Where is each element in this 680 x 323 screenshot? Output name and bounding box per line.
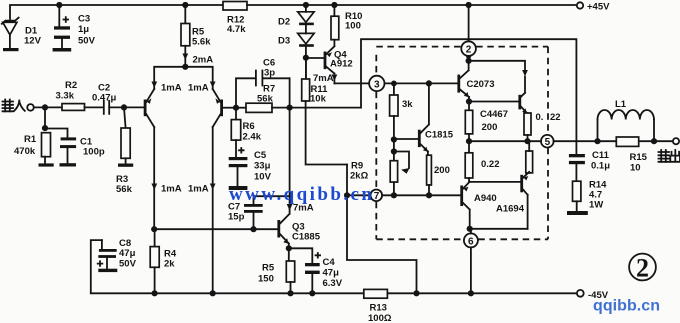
svg-text:1W: 1W bbox=[589, 200, 603, 211]
resistor R11 bbox=[302, 58, 347, 165]
capacitor C2 bbox=[92, 83, 116, 114]
node driver emitter junction bbox=[466, 98, 472, 104]
svg-text:R5: R5 bbox=[262, 263, 275, 274]
svg-text:10V: 10V bbox=[254, 172, 272, 183]
resistor 200 C4467 bbox=[465, 102, 497, 142]
arrow into module bbox=[466, 56, 472, 62]
resistor R5 bbox=[181, 2, 211, 67]
node top rail node2 bbox=[466, 2, 472, 8]
svg-text:3p: 3p bbox=[264, 68, 275, 79]
wire A1694 base bbox=[470, 181, 521, 183]
wire R2 to C2 bbox=[85, 106, 104, 108]
terminal input bbox=[27, 104, 34, 111]
svg-text:100: 100 bbox=[345, 21, 361, 32]
label shuchu output glyphs bbox=[659, 150, 680, 162]
svg-text:10k: 10k bbox=[310, 94, 327, 105]
ground R1 bbox=[39, 163, 54, 166]
wire Q2 collector bbox=[212, 127, 214, 293]
transistor A940 bbox=[460, 182, 496, 229]
arrow 1mA right lower bbox=[188, 184, 216, 195]
node circle 6 bbox=[464, 233, 478, 247]
arrow 7mA Q4 bbox=[313, 73, 337, 84]
svg-text:2kΩ: 2kΩ bbox=[350, 171, 369, 182]
resistor 0.22 right lower bbox=[526, 141, 533, 173]
resistor R4 bbox=[150, 229, 177, 293]
svg-text:4.7k: 4.7k bbox=[227, 24, 246, 35]
transistor Q2 bbox=[213, 89, 236, 127]
svg-text:5.6k: 5.6k bbox=[192, 37, 211, 48]
node Q3 emitter bbox=[286, 245, 292, 251]
ground R14 bbox=[567, 211, 588, 215]
transistor A1694 bbox=[496, 172, 529, 229]
wire bottom rail right bbox=[387, 292, 576, 294]
transistor C2073 bbox=[457, 61, 494, 102]
svg-text:10: 10 bbox=[630, 163, 641, 174]
svg-text:A912: A912 bbox=[330, 59, 353, 70]
svg-text:C1885: C1885 bbox=[292, 232, 321, 243]
svg-text:0.47μ: 0.47μ bbox=[92, 93, 116, 104]
svg-text:56k: 56k bbox=[257, 94, 274, 105]
resistor R6 bbox=[231, 108, 261, 157]
resistor R7 bbox=[236, 84, 275, 113]
node 200 bottom rail5 bbox=[466, 138, 472, 144]
node 3k top bbox=[391, 81, 397, 87]
wire Q4 collector to node3 bbox=[334, 82, 369, 84]
node C1815 collector top bbox=[426, 80, 432, 86]
zener diode D1 bbox=[2, 18, 42, 52]
wire node3 line bbox=[385, 82, 458, 84]
svg-text:150: 150 bbox=[258, 274, 274, 285]
inductor L1 bbox=[598, 99, 655, 141]
svg-text:22: 22 bbox=[550, 112, 561, 123]
node stepped wire junction7 bbox=[344, 192, 350, 198]
resistor 200 emitter bbox=[427, 155, 450, 195]
wire top rail 12V net bbox=[10, 5, 223, 19]
resistor R1 bbox=[14, 133, 51, 164]
capacitor C3 bbox=[53, 2, 96, 52]
node C7 base junction bbox=[250, 226, 256, 232]
svg-text:0.: 0. bbox=[536, 112, 544, 123]
wire feedback riser to zobel top bbox=[361, 39, 576, 154]
node Q1 base junction bbox=[121, 104, 127, 110]
svg-text:2.4k: 2.4k bbox=[243, 132, 262, 143]
node R9 wiper tie bbox=[391, 148, 397, 154]
svg-text:R2: R2 bbox=[65, 80, 77, 91]
node input junction bbox=[42, 104, 48, 110]
svg-text:L1: L1 bbox=[615, 99, 627, 110]
svg-text:C5: C5 bbox=[254, 150, 267, 161]
node Q4 base junction bbox=[303, 55, 309, 61]
svg-text:470k: 470k bbox=[14, 146, 36, 157]
svg-text:1mA: 1mA bbox=[161, 83, 182, 94]
wire node7 line bbox=[382, 194, 460, 196]
svg-text:200: 200 bbox=[434, 165, 450, 176]
node rail R5a bbox=[287, 290, 293, 296]
svg-text:100p: 100p bbox=[83, 147, 105, 158]
node circle 5 bbox=[541, 135, 554, 148]
svg-text:50V: 50V bbox=[119, 259, 137, 270]
svg-text:C4: C4 bbox=[323, 257, 336, 268]
node C2073 collector bbox=[466, 58, 472, 64]
wire C4467 base bbox=[469, 101, 518, 103]
svg-text:100Ω: 100Ω bbox=[368, 313, 392, 323]
transistor Q4 bbox=[306, 46, 353, 83]
svg-text:R6: R6 bbox=[243, 121, 255, 132]
capacitor C6 bbox=[256, 58, 275, 86]
svg-text:2: 2 bbox=[466, 45, 472, 56]
wire tail split bbox=[154, 67, 213, 89]
svg-text:R1: R1 bbox=[24, 134, 37, 145]
svg-text:3k: 3k bbox=[402, 99, 413, 110]
capacitor C8 bbox=[91, 238, 137, 293]
wire R11 path to node7 and rail bbox=[347, 165, 417, 294]
svg-text:1mA: 1mA bbox=[188, 184, 209, 195]
arrow 1mA right upper bbox=[188, 82, 216, 94]
node A940 collector bbox=[467, 226, 473, 232]
resistor 3k bbox=[390, 83, 414, 160]
svg-text:7: 7 bbox=[374, 191, 380, 202]
node circle 7 bbox=[371, 190, 383, 203]
capacitor C4 bbox=[289, 248, 343, 293]
label shuru input glyphs bbox=[3, 100, 25, 112]
wire bottom rail left bbox=[91, 292, 364, 294]
svg-text:6: 6 bbox=[468, 236, 474, 247]
svg-text:A940: A940 bbox=[474, 193, 497, 204]
arrow 1mA left upper bbox=[151, 82, 181, 94]
svg-text:C3: C3 bbox=[78, 14, 90, 25]
ground C1 bbox=[60, 163, 77, 166]
diode D3 bbox=[278, 25, 314, 79]
svg-text:+45V: +45V bbox=[587, 2, 610, 13]
arrow 1mA left lower bbox=[151, 184, 181, 195]
node R7 C6 junction bbox=[287, 105, 293, 111]
node circle 3 bbox=[369, 76, 384, 91]
svg-text:2k: 2k bbox=[164, 259, 175, 270]
capacitor C7 bbox=[228, 196, 290, 229]
ground C5 bbox=[229, 186, 248, 190]
node rail node6 bbox=[468, 290, 474, 296]
svg-text:C2073: C2073 bbox=[467, 79, 495, 90]
node tail split bbox=[182, 64, 188, 70]
node L1 right bbox=[651, 138, 657, 144]
node 022 bottom rail5 bbox=[524, 138, 530, 144]
terminal output bbox=[673, 138, 679, 144]
resistor R2 bbox=[56, 80, 85, 110]
wire node6 stub bbox=[470, 229, 472, 293]
svg-text:47μ: 47μ bbox=[323, 268, 340, 279]
svg-text:5: 5 bbox=[545, 137, 551, 148]
node R9 bottom bbox=[391, 192, 397, 198]
node circle 2 bbox=[461, 41, 476, 56]
svg-text:C1815: C1815 bbox=[425, 130, 454, 141]
wire R1 branch bbox=[44, 107, 46, 128]
node R1 C1 junction bbox=[42, 125, 48, 131]
svg-text:D2: D2 bbox=[278, 17, 290, 28]
resistor R15 bbox=[616, 137, 647, 174]
wire Q3 collector column bbox=[289, 78, 291, 214]
wire C6 branch bbox=[236, 78, 255, 107]
svg-text:www.qqibb.cn: www.qqibb.cn bbox=[229, 184, 372, 205]
svg-text:0.1μ: 0.1μ bbox=[591, 161, 610, 172]
svg-text:47μ: 47μ bbox=[119, 248, 136, 259]
resistor 0.22 left lower bbox=[465, 141, 499, 182]
wire input to R2 bbox=[34, 106, 62, 108]
terminal +45V bbox=[577, 2, 610, 13]
transistor Q1 bbox=[144, 89, 155, 127]
node L1 left bbox=[594, 138, 600, 144]
figure number 2 bbox=[629, 254, 656, 283]
svg-text:2mA: 2mA bbox=[193, 55, 214, 66]
svg-text:33μ: 33μ bbox=[254, 161, 271, 172]
diode D2 bbox=[278, 2, 314, 28]
node rail Q2 bbox=[210, 290, 216, 296]
svg-text:2: 2 bbox=[636, 254, 649, 283]
svg-text:R15: R15 bbox=[630, 152, 648, 163]
svg-text:50V: 50V bbox=[78, 36, 96, 47]
wire node5 line bbox=[469, 140, 673, 142]
wire top rail +45V net bbox=[247, 4, 577, 6]
node rail tap bbox=[413, 290, 419, 296]
wire C2 to Q1 base bbox=[109, 106, 144, 108]
svg-text:1mA: 1mA bbox=[161, 184, 182, 195]
wire R3 branch bbox=[124, 107, 126, 128]
node rail R4 bbox=[152, 290, 158, 296]
node Q1 collector to base line bbox=[151, 226, 157, 232]
transistor Q3 bbox=[277, 215, 320, 249]
svg-text:1μ: 1μ bbox=[78, 24, 89, 35]
transistor C1815 bbox=[394, 83, 454, 155]
svg-text:A1694: A1694 bbox=[496, 204, 525, 215]
svg-text:7mA: 7mA bbox=[313, 73, 334, 84]
resistor R3 bbox=[116, 128, 133, 195]
arrow 2mA bbox=[182, 54, 213, 66]
svg-text:200: 200 bbox=[482, 122, 498, 133]
transistor C4467 bbox=[480, 95, 527, 120]
svg-text:6.3V: 6.3V bbox=[323, 278, 343, 289]
arrow collector feed bbox=[522, 70, 528, 76]
resistor R14 bbox=[573, 180, 608, 212]
svg-text:D3: D3 bbox=[278, 36, 290, 47]
arrow 7mA Q3 bbox=[287, 203, 314, 214]
wire Q3 base line bbox=[154, 228, 277, 230]
svg-text:15p: 15p bbox=[228, 212, 245, 223]
wire R7 to feedback riser bbox=[272, 107, 361, 109]
node C1815 base junction bbox=[391, 136, 397, 142]
dashed module box bbox=[376, 47, 548, 240]
svg-text:0.22: 0.22 bbox=[481, 159, 500, 170]
svg-text:R13: R13 bbox=[370, 303, 387, 314]
svg-text:3: 3 bbox=[374, 79, 380, 90]
node R6 junction bbox=[233, 105, 239, 111]
svg-text:1mA: 1mA bbox=[188, 83, 209, 94]
svg-text:C4467: C4467 bbox=[480, 109, 508, 120]
wire C6 to feedback node bbox=[262, 77, 289, 79]
resistor R10 bbox=[331, 2, 362, 46]
svg-text:12V: 12V bbox=[24, 36, 42, 47]
svg-text:56k: 56k bbox=[116, 184, 133, 195]
resistor R5a 150 bbox=[258, 248, 295, 293]
capacitor C5 bbox=[229, 148, 272, 186]
resistor 0.22 upper bbox=[524, 112, 561, 141]
capacitor C1 bbox=[60, 137, 105, 164]
wire Q1 collector bbox=[153, 127, 155, 229]
resistor R13 bbox=[364, 289, 392, 323]
svg-text:3.3k: 3.3k bbox=[56, 91, 75, 102]
wire C1 branch bbox=[45, 129, 68, 138]
wire node6 line bbox=[470, 228, 528, 230]
svg-text:qqibb.cn: qqibb.cn bbox=[593, 298, 660, 315]
terminal -45V bbox=[577, 290, 609, 301]
node rail C4 bbox=[309, 290, 315, 296]
resistor R12 bbox=[223, 2, 247, 36]
potentiometer R9 bbox=[350, 152, 410, 196]
wire node2 to collector bbox=[468, 5, 470, 61]
svg-text:C11: C11 bbox=[592, 150, 610, 161]
ground R3 bbox=[118, 164, 133, 167]
node 200 bottom bbox=[426, 192, 432, 198]
capacitor C11 bbox=[569, 150, 610, 181]
wire collector feed to C4467 bbox=[469, 61, 525, 97]
